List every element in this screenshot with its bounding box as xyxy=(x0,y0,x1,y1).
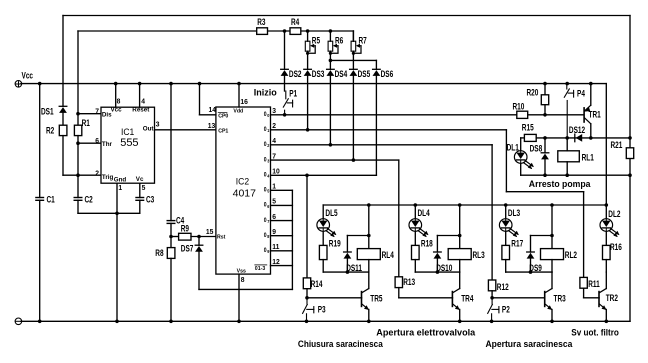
svg-text:DL1: DL1 xyxy=(507,143,520,153)
svg-text:R17: R17 xyxy=(511,238,523,248)
svg-text:DL5: DL5 xyxy=(325,208,338,218)
svg-text:TR5: TR5 xyxy=(370,293,383,303)
svg-text:C1: C1 xyxy=(47,194,56,204)
svg-text:15: 15 xyxy=(206,227,214,235)
svg-text:R1: R1 xyxy=(82,118,91,128)
svg-text:11: 11 xyxy=(272,243,279,251)
svg-text:0: 0 xyxy=(264,112,267,118)
svg-text:4: 4 xyxy=(272,137,276,145)
svg-text:R3: R3 xyxy=(257,17,266,27)
svg-text:P4: P4 xyxy=(577,89,585,99)
svg-text:DS6: DS6 xyxy=(381,69,394,79)
svg-text:R11: R11 xyxy=(588,279,600,289)
svg-text:TR4: TR4 xyxy=(461,293,474,303)
svg-text:4: 4 xyxy=(141,97,145,105)
svg-text:14: 14 xyxy=(209,105,217,113)
svg-text:R12: R12 xyxy=(497,282,509,292)
svg-text:RL2: RL2 xyxy=(565,250,578,260)
svg-text:0: 0 xyxy=(264,157,267,163)
svg-text:R21: R21 xyxy=(611,140,623,150)
svg-text:R19: R19 xyxy=(329,238,341,248)
svg-text:555: 555 xyxy=(120,137,138,149)
svg-text:R15: R15 xyxy=(522,122,534,132)
svg-text:CP1: CP1 xyxy=(218,128,228,134)
svg-text:TR2: TR2 xyxy=(606,293,619,303)
svg-text:Chiusura saracinesca: Chiusura saracinesca xyxy=(298,339,383,349)
svg-text:DL4: DL4 xyxy=(418,208,431,218)
svg-text:0: 0 xyxy=(264,127,267,133)
svg-text:7: 7 xyxy=(272,152,276,160)
svg-text:TR3: TR3 xyxy=(554,293,567,303)
svg-text:3: 3 xyxy=(156,120,160,128)
svg-text:0: 0 xyxy=(264,217,267,223)
svg-text:DS5: DS5 xyxy=(358,69,371,79)
svg-text:0: 0 xyxy=(264,187,267,193)
svg-text:R8: R8 xyxy=(155,248,164,258)
svg-text:1: 1 xyxy=(272,182,276,190)
svg-text:Apertura saracinesca: Apertura saracinesca xyxy=(486,339,573,349)
svg-text:Vdd: Vdd xyxy=(233,108,243,114)
svg-text:10: 10 xyxy=(272,167,280,175)
svg-text:DS7: DS7 xyxy=(181,243,194,253)
svg-text:3: 3 xyxy=(272,107,276,115)
svg-text:16: 16 xyxy=(240,97,248,105)
svg-text:R13: R13 xyxy=(403,277,415,287)
svg-text:Trig: Trig xyxy=(102,174,114,181)
svg-text:R14: R14 xyxy=(311,279,323,289)
svg-text:6: 6 xyxy=(272,212,276,220)
svg-text:Vc: Vc xyxy=(136,176,144,183)
svg-text:Gnd: Gnd xyxy=(114,176,127,183)
svg-text:CP0: CP0 xyxy=(218,113,228,119)
svg-text:2: 2 xyxy=(95,169,99,177)
svg-text:R5: R5 xyxy=(312,36,321,46)
svg-text:Thr: Thr xyxy=(102,141,113,148)
svg-text:1: 1 xyxy=(118,183,122,191)
svg-text:8: 8 xyxy=(241,276,245,284)
svg-text:DL3: DL3 xyxy=(508,208,521,218)
svg-text:DS3: DS3 xyxy=(312,69,325,79)
svg-text:P2: P2 xyxy=(502,304,510,314)
svg-text:0: 0 xyxy=(264,172,267,178)
svg-text:R4: R4 xyxy=(291,17,300,27)
svg-text:2: 2 xyxy=(272,122,276,130)
svg-text:4017: 4017 xyxy=(233,188,257,200)
svg-text:RL3: RL3 xyxy=(473,250,486,260)
svg-text:DS8: DS8 xyxy=(530,143,543,153)
svg-text:Sv uot. filtro: Sv uot. filtro xyxy=(571,327,619,337)
svg-text:DS2: DS2 xyxy=(289,69,302,79)
svg-text:R9: R9 xyxy=(181,223,190,233)
svg-text:R20: R20 xyxy=(527,87,539,97)
svg-text:TR1: TR1 xyxy=(589,109,602,119)
svg-text:DL2: DL2 xyxy=(608,209,621,219)
svg-text:0: 0 xyxy=(264,202,267,208)
svg-text:DS1: DS1 xyxy=(41,107,54,117)
svg-text:5: 5 xyxy=(272,197,276,205)
svg-text:C2: C2 xyxy=(85,194,94,204)
svg-text:P1: P1 xyxy=(289,88,297,98)
svg-text:Reset: Reset xyxy=(132,106,150,113)
svg-text:0: 0 xyxy=(264,142,267,148)
svg-text:R6: R6 xyxy=(335,36,344,46)
svg-text:RL1: RL1 xyxy=(582,152,595,162)
svg-text:DS4: DS4 xyxy=(335,69,348,79)
svg-text:Apertura elettrovalvola: Apertura elettrovalvola xyxy=(376,328,476,338)
svg-text:Vss: Vss xyxy=(237,268,246,274)
svg-text:RL4: RL4 xyxy=(382,250,395,260)
svg-text:R10: R10 xyxy=(513,102,525,112)
svg-text:Arresto pompa: Arresto pompa xyxy=(529,179,591,189)
svg-text:R7: R7 xyxy=(359,36,368,46)
svg-text:9: 9 xyxy=(272,228,276,236)
svg-text:Dis: Dis xyxy=(102,111,112,118)
svg-text:Inizio: Inizio xyxy=(254,87,277,97)
svg-text:R18: R18 xyxy=(421,238,433,248)
svg-text:C3: C3 xyxy=(146,194,155,204)
svg-text:0: 0 xyxy=(264,233,267,239)
svg-text:IC1: IC1 xyxy=(121,126,134,137)
svg-text:13: 13 xyxy=(208,121,216,129)
svg-text:Rst: Rst xyxy=(217,234,226,240)
svg-text:01-3: 01-3 xyxy=(255,266,265,272)
svg-text:5: 5 xyxy=(142,183,146,191)
svg-text:P3: P3 xyxy=(318,304,326,314)
svg-text:IC2: IC2 xyxy=(236,176,249,187)
svg-text:R2: R2 xyxy=(46,126,55,136)
svg-text:Out: Out xyxy=(143,125,155,132)
svg-text:8: 8 xyxy=(117,97,121,105)
svg-text:6: 6 xyxy=(95,137,99,145)
svg-text:DS12: DS12 xyxy=(569,125,586,135)
svg-text:12: 12 xyxy=(272,257,280,265)
svg-text:0: 0 xyxy=(264,248,267,254)
svg-text:R16: R16 xyxy=(610,242,622,252)
svg-text:7: 7 xyxy=(95,107,99,115)
svg-text:Vcc: Vcc xyxy=(22,70,34,80)
svg-text:Vcc: Vcc xyxy=(111,106,123,113)
